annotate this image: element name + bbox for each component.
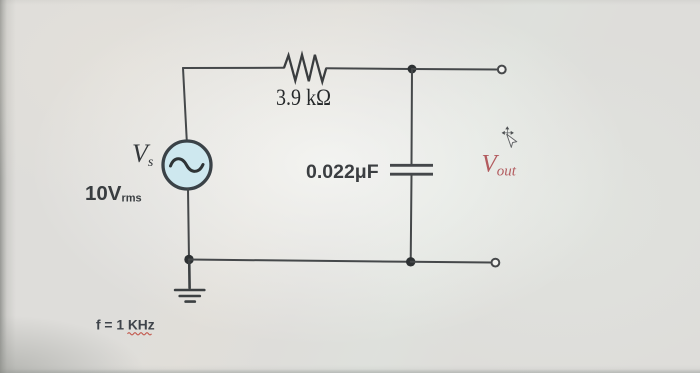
resistor value label 3.9 kOhm [276,85,331,111]
ground [175,260,204,302]
wire: from source bottom down to bottom rail [188,189,189,260]
svg-text:0.022μF: 0.022μF [306,161,379,183]
voltage source Vs (sine source circle) [163,141,211,189]
source name label Vs [132,139,154,170]
svg-text:Vout: Vout [482,151,517,180]
wire: capacitor top lead from top node [411,69,414,164]
svg-text:3.9 kΩ: 3.9 kΩ [276,85,331,111]
label f = 1 KHz [96,318,155,333]
mouse cursor (move cursor with pointer) [502,126,517,147]
node: bottom junction at source / ground [184,255,193,264]
capacitor value label 0.022uF [306,161,379,183]
svg-text:f = 1 KHz: f = 1 KHz [96,318,155,333]
wire: capacitor bottom lead to bottom rail [410,176,413,262]
node: bottom junction at capacitor [406,257,415,266]
label Vout [482,151,517,180]
resistor 3.9 kOhm [284,55,326,82]
wire: top-left vertical from top rail down to source [183,68,187,141]
svg-text:Vs: Vs [132,139,154,170]
capacitor 0.022uF (plates) [390,165,433,174]
wire: bottom rail to output terminal [411,261,491,264]
spellcheck squiggle under KHz [128,333,152,335]
wire: top rail left segment to resistor [183,67,284,69]
node: top junction at capacitor [408,65,417,74]
svg-text:10Vrms: 10Vrms [85,182,142,205]
terminal: output - (open circle, bottom right) [492,259,500,267]
wire: top rail to output terminal [412,68,497,71]
wire: bottom rail from source node to capacitor node [189,260,411,262]
terminal: output + (open circle, top right) [498,66,506,74]
wire: top rail right segment from resistor to node [326,67,412,70]
source value label 10Vrms [85,182,142,205]
